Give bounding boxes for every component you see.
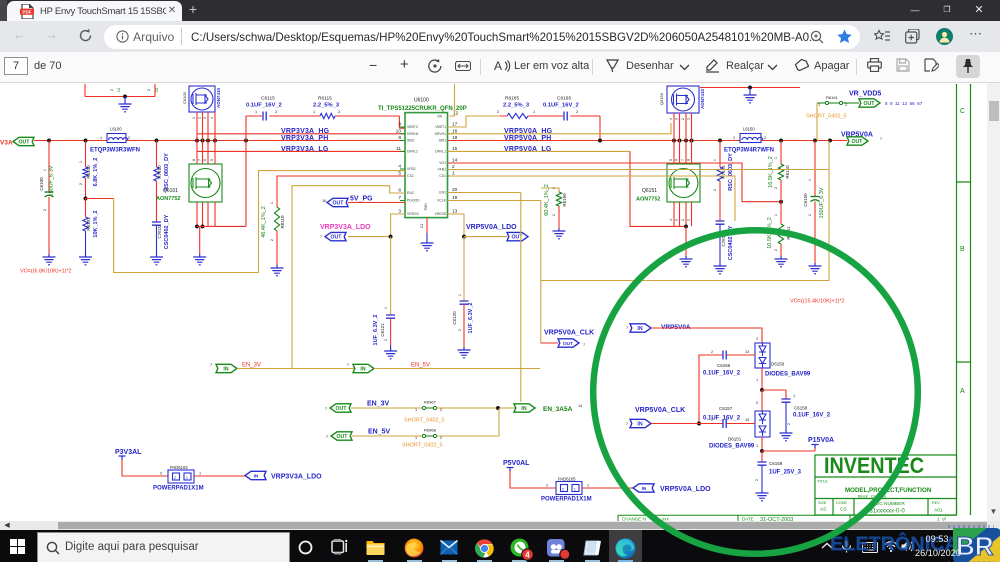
svg-text:SIZE: SIZE: [818, 501, 827, 505]
svg-text:10.5K_1%_2: 10.5K_1%_2: [767, 217, 773, 249]
svg-text:OUT: OUT: [864, 101, 876, 107]
svg-text:7: 7: [347, 363, 349, 367]
svg-text:C6150: C6150: [803, 193, 808, 207]
svg-text:CS: CS: [840, 507, 847, 513]
browser tab bar: [0, 0, 1000, 21]
node diode junction upper: [760, 388, 764, 392]
svg-text:R6161: R6161: [826, 95, 839, 100]
svg-text:2: 2: [756, 401, 758, 405]
node top-right junction: [748, 86, 752, 90]
taskbar: open app underline indicators: [368, 560, 383, 562]
svg-text:L6150: L6150: [743, 127, 755, 132]
wire D6151 to P15V0A: [761, 437, 763, 451]
taskbar: tray mic icon: [841, 540, 852, 553]
svg-text:DIODES_BAV99: DIODES_BAV99: [765, 372, 811, 378]
port OUT arrow VRP5V0A_LDO: [507, 232, 528, 240]
wire junction to C6158: [762, 390, 786, 399]
svg-text:VCLK: VCLK: [437, 199, 447, 203]
pdf viewer toolbar: [0, 52, 1000, 83]
svg-text:8: 8: [192, 159, 196, 161]
svg-text:4: 4: [525, 550, 530, 559]
svg-text:R6100: R6100: [86, 165, 91, 179]
svg-text:AON7410: AON7410: [216, 88, 221, 109]
resistor R6150 16.5K: [780, 141, 782, 165]
watermark: [828, 529, 1000, 562]
svg-text:IN: IN: [642, 486, 647, 492]
wire CS1 sense (tan): [449, 176, 735, 221]
svg-text:VO=((6.8K/10K)+1)*2: VO=((6.8K/10K)+1)*2: [20, 269, 72, 275]
svg-text:OUT: OUT: [852, 139, 864, 145]
svg-text:6: 6: [203, 159, 207, 161]
svg-text:R6101: R6101: [86, 217, 91, 231]
resistor R6161 SHORT_0402: [817, 102, 859, 104]
svg-text:1: 1: [192, 117, 196, 119]
svg-text:SW1: SW1: [439, 139, 446, 143]
svg-text:V3A: V3A: [0, 140, 13, 147]
svg-text:7: 7: [198, 159, 202, 161]
taskbar: file explorer icon: [366, 539, 385, 555]
svg-text:Q6151: Q6151: [642, 188, 657, 194]
wire VO1 sense: [448, 163, 782, 202]
port OUT arrow VR_VDD5: [859, 99, 880, 107]
svg-text:VFB1: VFB1: [438, 168, 447, 172]
svg-text:4: 4: [669, 219, 673, 221]
svg-text:13: 13: [745, 350, 749, 354]
svg-text:C6121: C6121: [380, 323, 385, 337]
ground top-right input: [749, 88, 751, 93]
svg-text:R6967: R6967: [424, 400, 437, 405]
port OUT arrow VRP5V0A: [847, 137, 868, 145]
svg-text:OUT: OUT: [563, 341, 573, 347]
svg-text:A: A: [960, 388, 965, 395]
svg-text:R7615: R7615: [721, 165, 726, 179]
svg-text:2: 2: [552, 214, 556, 216]
svg-text:PGOOD: PGOOD: [407, 199, 420, 203]
svg-text:4: 4: [669, 118, 673, 120]
svg-text:1: 1: [458, 294, 462, 296]
svg-text:1: 1: [733, 136, 735, 140]
svg-text:6.8K_1%_2: 6.8K_1%_2: [93, 158, 99, 187]
svg-text:IN: IN: [637, 326, 642, 332]
inductor L6150: [740, 134, 763, 143]
svg-text:CSC0402_DY: CSC0402_DY: [728, 225, 734, 260]
capacitor C7610 CSC0402: [152, 222, 161, 225]
svg-text:1: 1: [793, 394, 795, 398]
ground C6159: [756, 490, 769, 501]
port IN arrow EN_3V (top row): [216, 364, 237, 372]
svg-text:7: 7: [583, 343, 585, 347]
svg-text:2: 2: [774, 187, 778, 189]
svg-text:2: 2: [764, 136, 766, 140]
svg-text:PAD6103: PAD6103: [170, 465, 188, 470]
svg-text:1: 1: [313, 110, 315, 114]
svg-text:7: 7: [326, 435, 328, 439]
svg-text:0.1UF_16V_2: 0.1UF_16V_2: [703, 371, 741, 377]
svg-text:SW2: SW2: [407, 139, 414, 143]
svg-text:EN_3V: EN_3V: [242, 363, 261, 369]
svg-text:P5V0AL: P5V0AL: [503, 460, 530, 467]
svg-text:16.5K_1%_2: 16.5K_1%_2: [768, 156, 774, 188]
wire VRP5V0A to D6150: [651, 328, 762, 343]
wire P3V3AL to PAD6103: [122, 460, 168, 477]
wire top-left input cap bank: [85, 84, 155, 97]
svg-text:VREG3: VREG3: [407, 212, 419, 216]
wire EN_5V row (tan): [374, 368, 540, 370]
svg-text:ON: ON: [437, 115, 443, 119]
wire R6967 to junction: [437, 407, 516, 409]
svg-text:CS2: CS2: [407, 174, 414, 178]
svg-text:VRP5V0A_PH: VRP5V0A_PH: [504, 135, 552, 142]
svg-text:1UF_6.3V_2: 1UF_6.3V_2: [468, 303, 474, 334]
node R6100/R6101 divider junction: [84, 197, 88, 201]
svg-text:D6150: D6150: [771, 362, 785, 367]
svg-text:7: 7: [880, 137, 882, 141]
svg-text:VRP5V0A_LDO: VRP5V0A_LDO: [660, 486, 711, 493]
svg-text:2: 2: [681, 219, 685, 221]
svg-text:46.4K_1%_2: 46.4K_1%_2: [261, 206, 267, 238]
node VREG5 junction: [462, 235, 466, 239]
svg-text:VFB2: VFB2: [407, 167, 416, 171]
svg-text:8: 8: [687, 159, 691, 161]
svg-text:3: 3: [675, 219, 679, 221]
wire Q6101 pins to rail: [197, 141, 215, 165]
svg-text:C6156: C6156: [717, 363, 731, 368]
svg-text:OUT: OUT: [331, 235, 343, 241]
svg-text:7: 7: [325, 407, 327, 411]
svg-text:1: 1: [818, 103, 820, 107]
svg-text:CS1: CS1: [439, 174, 446, 178]
capacitor C6120: [460, 301, 469, 304]
svg-text:Block Diagram: Block Diagram: [858, 494, 887, 499]
svg-text:C6159: C6159: [769, 461, 783, 466]
svg-text:A: A: [494, 59, 502, 73]
wire Q6101 source down: [197, 202, 215, 226]
svg-text:CSC0402_DY: CSC0402_DY: [164, 214, 170, 249]
port IN arrow VRP3V3A_LDO: [245, 471, 266, 479]
svg-text:1: 1: [774, 214, 778, 216]
transistor Q6151 AON7752 (green): [667, 164, 700, 202]
svg-text:EN_3V: EN_3V: [367, 401, 390, 408]
svg-text:2: 2: [275, 110, 277, 114]
capacitor C6115: [263, 112, 266, 121]
diode D6151 BAV99: [755, 411, 770, 437]
svg-text:2: 2: [198, 117, 202, 119]
taskbar: tray touch-keyboard icon: [862, 542, 878, 553]
title block INVENTEC: [815, 455, 957, 515]
taskbar: recorder app icon with red dot: [547, 539, 571, 560]
wire Q6150 to rail: [674, 113, 692, 141]
capacitor C6121: [386, 315, 395, 318]
svg-text:R6150: R6150: [785, 165, 790, 179]
svg-text:7: 7: [320, 235, 322, 239]
svg-text:VO1: VO1: [439, 161, 446, 165]
svg-text:AON7410: AON7410: [700, 89, 705, 110]
ground C6158: [780, 430, 793, 441]
IC pin stubs: [400, 127, 405, 214]
wire EN_3V to R6967: [351, 407, 422, 409]
ground C7610: [150, 254, 163, 265]
svg-text:1: 1: [713, 159, 717, 161]
resistor R6151 10.5K: [780, 202, 782, 224]
taskbar: mail icon: [440, 540, 458, 555]
svg-text:R8110: R8110: [280, 215, 285, 228]
svg-text:DIODES_BAV99: DIODES_BAV99: [709, 444, 755, 450]
ground C6121: [390, 345, 392, 348]
svg-text:2: 2: [681, 118, 685, 120]
svg-text:INVENTEC: INVENTEC: [824, 454, 924, 478]
wire VRP3V3A_HG (gate drive high): [197, 133, 405, 135]
svg-text:C6100: C6100: [182, 91, 187, 104]
svg-text:POWERPAD1X1M: POWERPAD1X1M: [541, 497, 592, 503]
node EN_3V junction: [496, 406, 500, 410]
node top-left junction: [123, 95, 127, 99]
schematic border right: [957, 84, 971, 515]
capacitor C6100 (bulk 150UF): [48, 141, 50, 193]
wire R6161 to rail (tan): [816, 103, 818, 141]
ground Q6151 source: [685, 226, 687, 256]
windows taskbar: [0, 530, 1000, 562]
svg-text:7: 7: [626, 422, 628, 426]
wire EN1 tan column: [448, 193, 521, 403]
svg-text:2.2_5%_3: 2.2_5%_3: [313, 103, 340, 109]
taskbar: notes app icon: [583, 539, 602, 557]
wire CLK to C6157: [651, 423, 755, 425]
svg-text:1: 1: [255, 110, 257, 114]
svg-text:RSC_0603_DY: RSC_0603_DY: [164, 153, 170, 191]
capacitor C6159: [758, 462, 767, 465]
svg-text:10: 10: [116, 87, 121, 92]
wire VRP3V3A_LG (gate drive low): [197, 150, 405, 152]
svg-text:2: 2: [128, 136, 130, 140]
svg-text:R7610: R7610: [157, 165, 162, 179]
wire VFB1 feedback loop (tan): [448, 141, 830, 281]
svg-text:1UF_6.3V_2: 1UF_6.3V_2: [373, 315, 379, 346]
svg-text:1: 1: [756, 378, 758, 382]
taskbar: edge icon: [615, 538, 636, 559]
svg-text:6: 6: [675, 159, 679, 161]
ground top-left cap bank: [124, 97, 126, 102]
svg-text:2: 2: [546, 484, 548, 488]
svg-text:EN_5V: EN_5V: [411, 363, 430, 369]
svg-text:R6968: R6968: [424, 428, 437, 433]
scrollbars: [987, 83, 1000, 521]
svg-text:AON7752: AON7752: [156, 196, 180, 202]
svg-text:OUT: OUT: [19, 140, 31, 146]
svg-text:OUT: OUT: [512, 235, 524, 241]
svg-text:A3: A3: [820, 507, 826, 513]
svg-text:EN_5V: EN_5V: [368, 429, 391, 436]
svg-text:1: 1: [687, 219, 691, 221]
svg-text:R6160: R6160: [562, 193, 567, 207]
svg-text:SHORT_0402_5: SHORT_0402_5: [404, 418, 445, 424]
svg-text:VREG5: VREG5: [435, 212, 447, 216]
wire Q6100 drain/source to rail: [197, 112, 215, 141]
node VREG3 junction: [389, 235, 393, 239]
svg-text:1: 1: [100, 136, 102, 140]
svg-text:10K_1%_2: 10K_1%_2: [93, 210, 99, 237]
svg-text:EN2: EN2: [407, 191, 414, 195]
taskbar: edge active highlight: [609, 530, 642, 562]
resistor R6100 6.8K: [85, 141, 87, 168]
svg-text:1: 1: [687, 118, 691, 120]
svg-text:5V_PG: 5V_PG: [350, 196, 373, 203]
wire EN_5V to R6968: [352, 435, 422, 437]
capacitor C6158: [782, 399, 791, 402]
port IN arrow EN_3A5A: [514, 404, 535, 412]
svg-text:C6100: C6100: [39, 177, 44, 191]
svg-text:2: 2: [774, 249, 778, 251]
svg-text:VRP3V3A_LDO: VRP3V3A_LDO: [320, 224, 371, 231]
pad PAD6103 POWERPAD1X1M: [168, 470, 194, 483]
svg-text:7: 7: [681, 159, 685, 161]
svg-text:3: 3: [675, 118, 679, 120]
port OUT arrow VRP5V0A_CLK: [541, 342, 558, 344]
svg-text:1: 1: [587, 484, 589, 488]
resistor R6967 short: [422, 406, 436, 409]
svg-text:Q6150: Q6150: [659, 92, 664, 105]
svg-text:1: 1: [533, 110, 535, 114]
wire VREG3 to C6121: [391, 214, 405, 237]
svg-text:REV: REV: [932, 501, 940, 505]
capacitor C6156 loop: [699, 355, 755, 424]
resistor R6115: [320, 113, 335, 118]
IC U6100 TPS51225: [405, 113, 448, 218]
capacitor C6150 bulk: [814, 141, 816, 197]
svg-text:2: 2: [79, 183, 83, 185]
svg-text:VRP5V0A_CLK: VRP5V0A_CLK: [544, 330, 594, 337]
svg-text:15: 15: [745, 418, 749, 422]
svg-text:2: 2: [440, 436, 442, 440]
wire TMD pin21 to ground: [426, 218, 428, 233]
svg-text:2: 2: [576, 110, 578, 114]
svg-text:POWERPAD1X1M: POWERPAD1X1M: [153, 486, 204, 492]
wire junction to C6159: [761, 451, 763, 462]
svg-text:VRP3V3A_LDO: VRP3V3A_LDO: [271, 474, 322, 481]
ground R6151: [775, 256, 788, 267]
port IN arrow EN_5V (top row): [353, 364, 374, 372]
svg-text:C: C: [960, 108, 965, 115]
svg-text:1: 1: [384, 307, 388, 309]
node junctions on left rail: [47, 139, 51, 143]
svg-text:2: 2: [711, 350, 713, 354]
wire VREG5 to C6120: [448, 214, 465, 237]
svg-text:2: 2: [711, 418, 713, 422]
wire bootstrap/boot cap C6115 row: [246, 116, 405, 128]
port OUT arrow V3A: [13, 137, 34, 145]
svg-text:B: B: [960, 246, 965, 253]
svg-text:VR_VDD5: VR_VDD5: [849, 91, 881, 98]
svg-text:0.1UF_16V_2: 0.1UF_16V_2: [543, 103, 579, 109]
svg-text:5: 5: [210, 159, 214, 161]
svg-text:2: 2: [755, 479, 759, 481]
svg-text:DRVH1: DRVH1: [435, 132, 447, 136]
svg-text:2.2_5%_3: 2.2_5%_3: [503, 103, 530, 109]
transistor Q6150 AON7410 (blue): [667, 86, 699, 113]
svg-text:ETQP3W4R7WFN: ETQP3W4R7WFN: [724, 148, 774, 154]
svg-text:1: 1: [552, 187, 556, 189]
svg-text:2: 2: [384, 339, 388, 341]
ground C6150: [809, 263, 822, 274]
ground R8110: [271, 265, 284, 276]
wire P5V0AL to PAD6105: [510, 471, 556, 488]
svg-text:IN: IN: [360, 367, 365, 373]
svg-text:14: 14: [578, 404, 582, 408]
port IN arrow VRP5V0A_LDO bottom: [633, 484, 654, 492]
svg-text:OUT: OUT: [336, 406, 348, 412]
ground C7615: [714, 263, 727, 274]
taskbar: tray speaker icon: [901, 541, 914, 552]
svg-text:TITLE: TITLE: [817, 479, 828, 484]
wire Q6101 source bus to bootstrap column: [197, 116, 246, 226]
svg-text:SHORT_0402_5: SHORT_0402_5: [402, 443, 443, 449]
resistor R8110 46.4K: [274, 207, 279, 231]
svg-text:2: 2: [713, 189, 717, 191]
svg-text:PAD6105: PAD6105: [558, 477, 576, 482]
wire junction to D6151: [761, 390, 763, 411]
svg-text:IN: IN: [254, 474, 259, 480]
svg-text:C6165: C6165: [557, 96, 571, 102]
svg-text:IN: IN: [637, 422, 642, 428]
wire feedback VFB2 (tan loop): [86, 198, 114, 200]
svg-text:2: 2: [160, 472, 162, 476]
taskbar: tray chevron: [821, 542, 833, 550]
svg-text:R6165: R6165: [505, 96, 519, 102]
svg-text:P15V0A: P15V0A: [808, 437, 834, 444]
svg-text:CODE: CODE: [836, 501, 847, 505]
taskbar: clock and date: [914, 534, 960, 544]
transistor Q6100 AON7410 (high-side, blue): [189, 86, 215, 112]
svg-text:1: 1: [43, 169, 47, 171]
svg-text:150UF_6.3V: 150UF_6.3V: [49, 165, 55, 196]
svg-text:VRP3V3A_PH: VRP3V3A_PH: [281, 135, 329, 142]
taskbar: whatsapp icon with badge 4: [510, 538, 534, 561]
address bar: [0, 21, 1000, 52]
svg-text:IN: IN: [521, 406, 526, 412]
inductor L6100: [107, 134, 128, 143]
svg-text:16: 16: [322, 199, 326, 203]
pad PAD6105 POWERPAD1X1M: [556, 482, 582, 495]
svg-text:0.1UF_16V_2: 0.1UF_16V_2: [703, 416, 741, 422]
wire PGOOD: [348, 202, 405, 204]
svg-text:EN_3A5A: EN_3A5A: [543, 406, 573, 413]
svg-text:D6151: D6151: [728, 437, 742, 442]
svg-text:2: 2: [270, 239, 274, 241]
svg-text:131xxxxxx-0-0: 131xxxxxx-0-0: [866, 509, 905, 515]
ground C6120: [458, 347, 471, 358]
resistor R6968 short: [422, 434, 436, 437]
ground R6101: [79, 254, 92, 265]
svg-text:2: 2: [845, 103, 847, 107]
svg-text:1: 1: [774, 157, 778, 159]
svg-text:RSC_0603_DY: RSC_0603_DY: [728, 153, 734, 191]
svg-text:7: 7: [626, 326, 628, 330]
svg-text:C6158: C6158: [794, 406, 808, 411]
ground TMD: [426, 233, 428, 240]
svg-text:1: 1: [270, 202, 274, 204]
svg-text:IN: IN: [223, 367, 228, 373]
wire PAD6105 to arrow: [582, 487, 633, 489]
svg-text:1: 1: [808, 179, 812, 181]
svg-text:1: 1: [756, 444, 758, 448]
svg-text:2: 2: [756, 337, 758, 341]
resistor R7615: [719, 141, 721, 168]
svg-text:C7615: C7615: [721, 233, 726, 247]
svg-text:2: 2: [497, 110, 499, 114]
ground Q6101 source: [199, 226, 201, 254]
svg-text:PDF: PDF: [22, 10, 31, 15]
svg-text:AON7752: AON7752: [636, 197, 660, 203]
capacitor C6157: [723, 419, 726, 428]
